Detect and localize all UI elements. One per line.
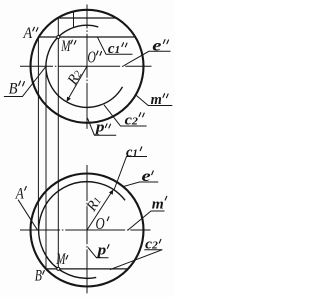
svg-text:R2: R2 <box>64 67 86 89</box>
leader of label m' <box>128 211 165 230</box>
svg-text:c1: c1 <box>126 144 138 160</box>
ticks of c1'' <box>122 43 124 47</box>
svg-text:O: O <box>87 48 96 67</box>
axis p' vertical centerline of top view <box>86 165 88 294</box>
tick of M' <box>66 256 68 260</box>
ticks of m'' <box>163 94 165 98</box>
axis m' horizontal centerline of top view <box>20 229 151 231</box>
ticks of e'' <box>163 40 165 44</box>
auxiliary circle c2'' (front view of frontal circle) <box>46 25 123 107</box>
chord c1'' (front view of parallel through M) <box>39 36 136 38</box>
leader of label A' <box>18 200 37 231</box>
axis p'' vertical centerline of front view <box>86 5 88 131</box>
svg-text:B: B <box>35 268 43 285</box>
leader of label e' <box>124 182 159 187</box>
auxiliary vertical tick at x=73.5 <box>73 11 75 27</box>
sphere outline circle e' (top view) <box>31 174 144 287</box>
leader of label c1' <box>114 157 147 191</box>
ticks of M'' <box>71 40 73 44</box>
tick of B' <box>43 271 45 275</box>
svg-text:M: M <box>56 251 67 268</box>
svg-text:m: m <box>152 197 164 213</box>
leader of label m'' <box>136 95 173 106</box>
projection line through B <box>45 66 47 269</box>
svg-text:O: O <box>96 214 105 233</box>
svg-text:p: p <box>94 120 105 136</box>
svg-text:M: M <box>61 38 72 55</box>
radius R1 line with arrow <box>87 192 112 231</box>
upper auxiliary chord <box>58 17 117 19</box>
tick of c2' <box>159 239 161 243</box>
svg-text:m: m <box>151 92 162 108</box>
svg-text:c2: c2 <box>125 113 139 129</box>
projection line through M <box>57 18 59 269</box>
sphere outline circle m'' (front view) <box>31 10 144 123</box>
tick of c1' <box>140 147 142 151</box>
tick of m' <box>165 196 167 200</box>
svg-text:B: B <box>9 81 18 98</box>
chord c2' (top view of frontal circle through M) <box>46 268 128 270</box>
ticks of B'' <box>19 81 21 85</box>
ticks of A'' <box>33 27 35 31</box>
svg-text:p: p <box>95 242 106 258</box>
tick of O' <box>107 217 109 221</box>
leader of label c1'' <box>98 38 133 55</box>
leader of label c2'' <box>104 105 147 126</box>
tick of p' <box>107 245 109 249</box>
projection line through A <box>37 37 39 230</box>
point marker M' <box>57 267 60 270</box>
radius R2 line with arrow <box>68 66 87 99</box>
ticks of O'' <box>97 51 99 55</box>
svg-text:c2: c2 <box>145 237 158 253</box>
leader of label e'' <box>124 51 171 66</box>
auxiliary circle c1' (top view of parallel through M) <box>39 182 125 279</box>
leader of label p'' <box>87 118 116 135</box>
svg-text:c1: c1 <box>108 41 120 57</box>
ticks of c2'' <box>139 113 141 117</box>
svg-text:e: e <box>142 168 151 185</box>
tick of A' <box>25 187 27 191</box>
leader of label p' <box>88 248 109 258</box>
leader of label c2' <box>110 250 162 270</box>
leader of label B'' <box>4 66 46 96</box>
point marker M'' <box>57 36 60 39</box>
ticks of p'' <box>105 124 107 128</box>
svg-text:A: A <box>23 25 33 42</box>
axis e'' horizontal centerline of front view <box>20 65 152 67</box>
svg-text:A: A <box>15 186 24 203</box>
tick of e' <box>152 171 154 175</box>
prime tick marks <box>19 27 169 274</box>
svg-text:e: e <box>152 38 161 55</box>
